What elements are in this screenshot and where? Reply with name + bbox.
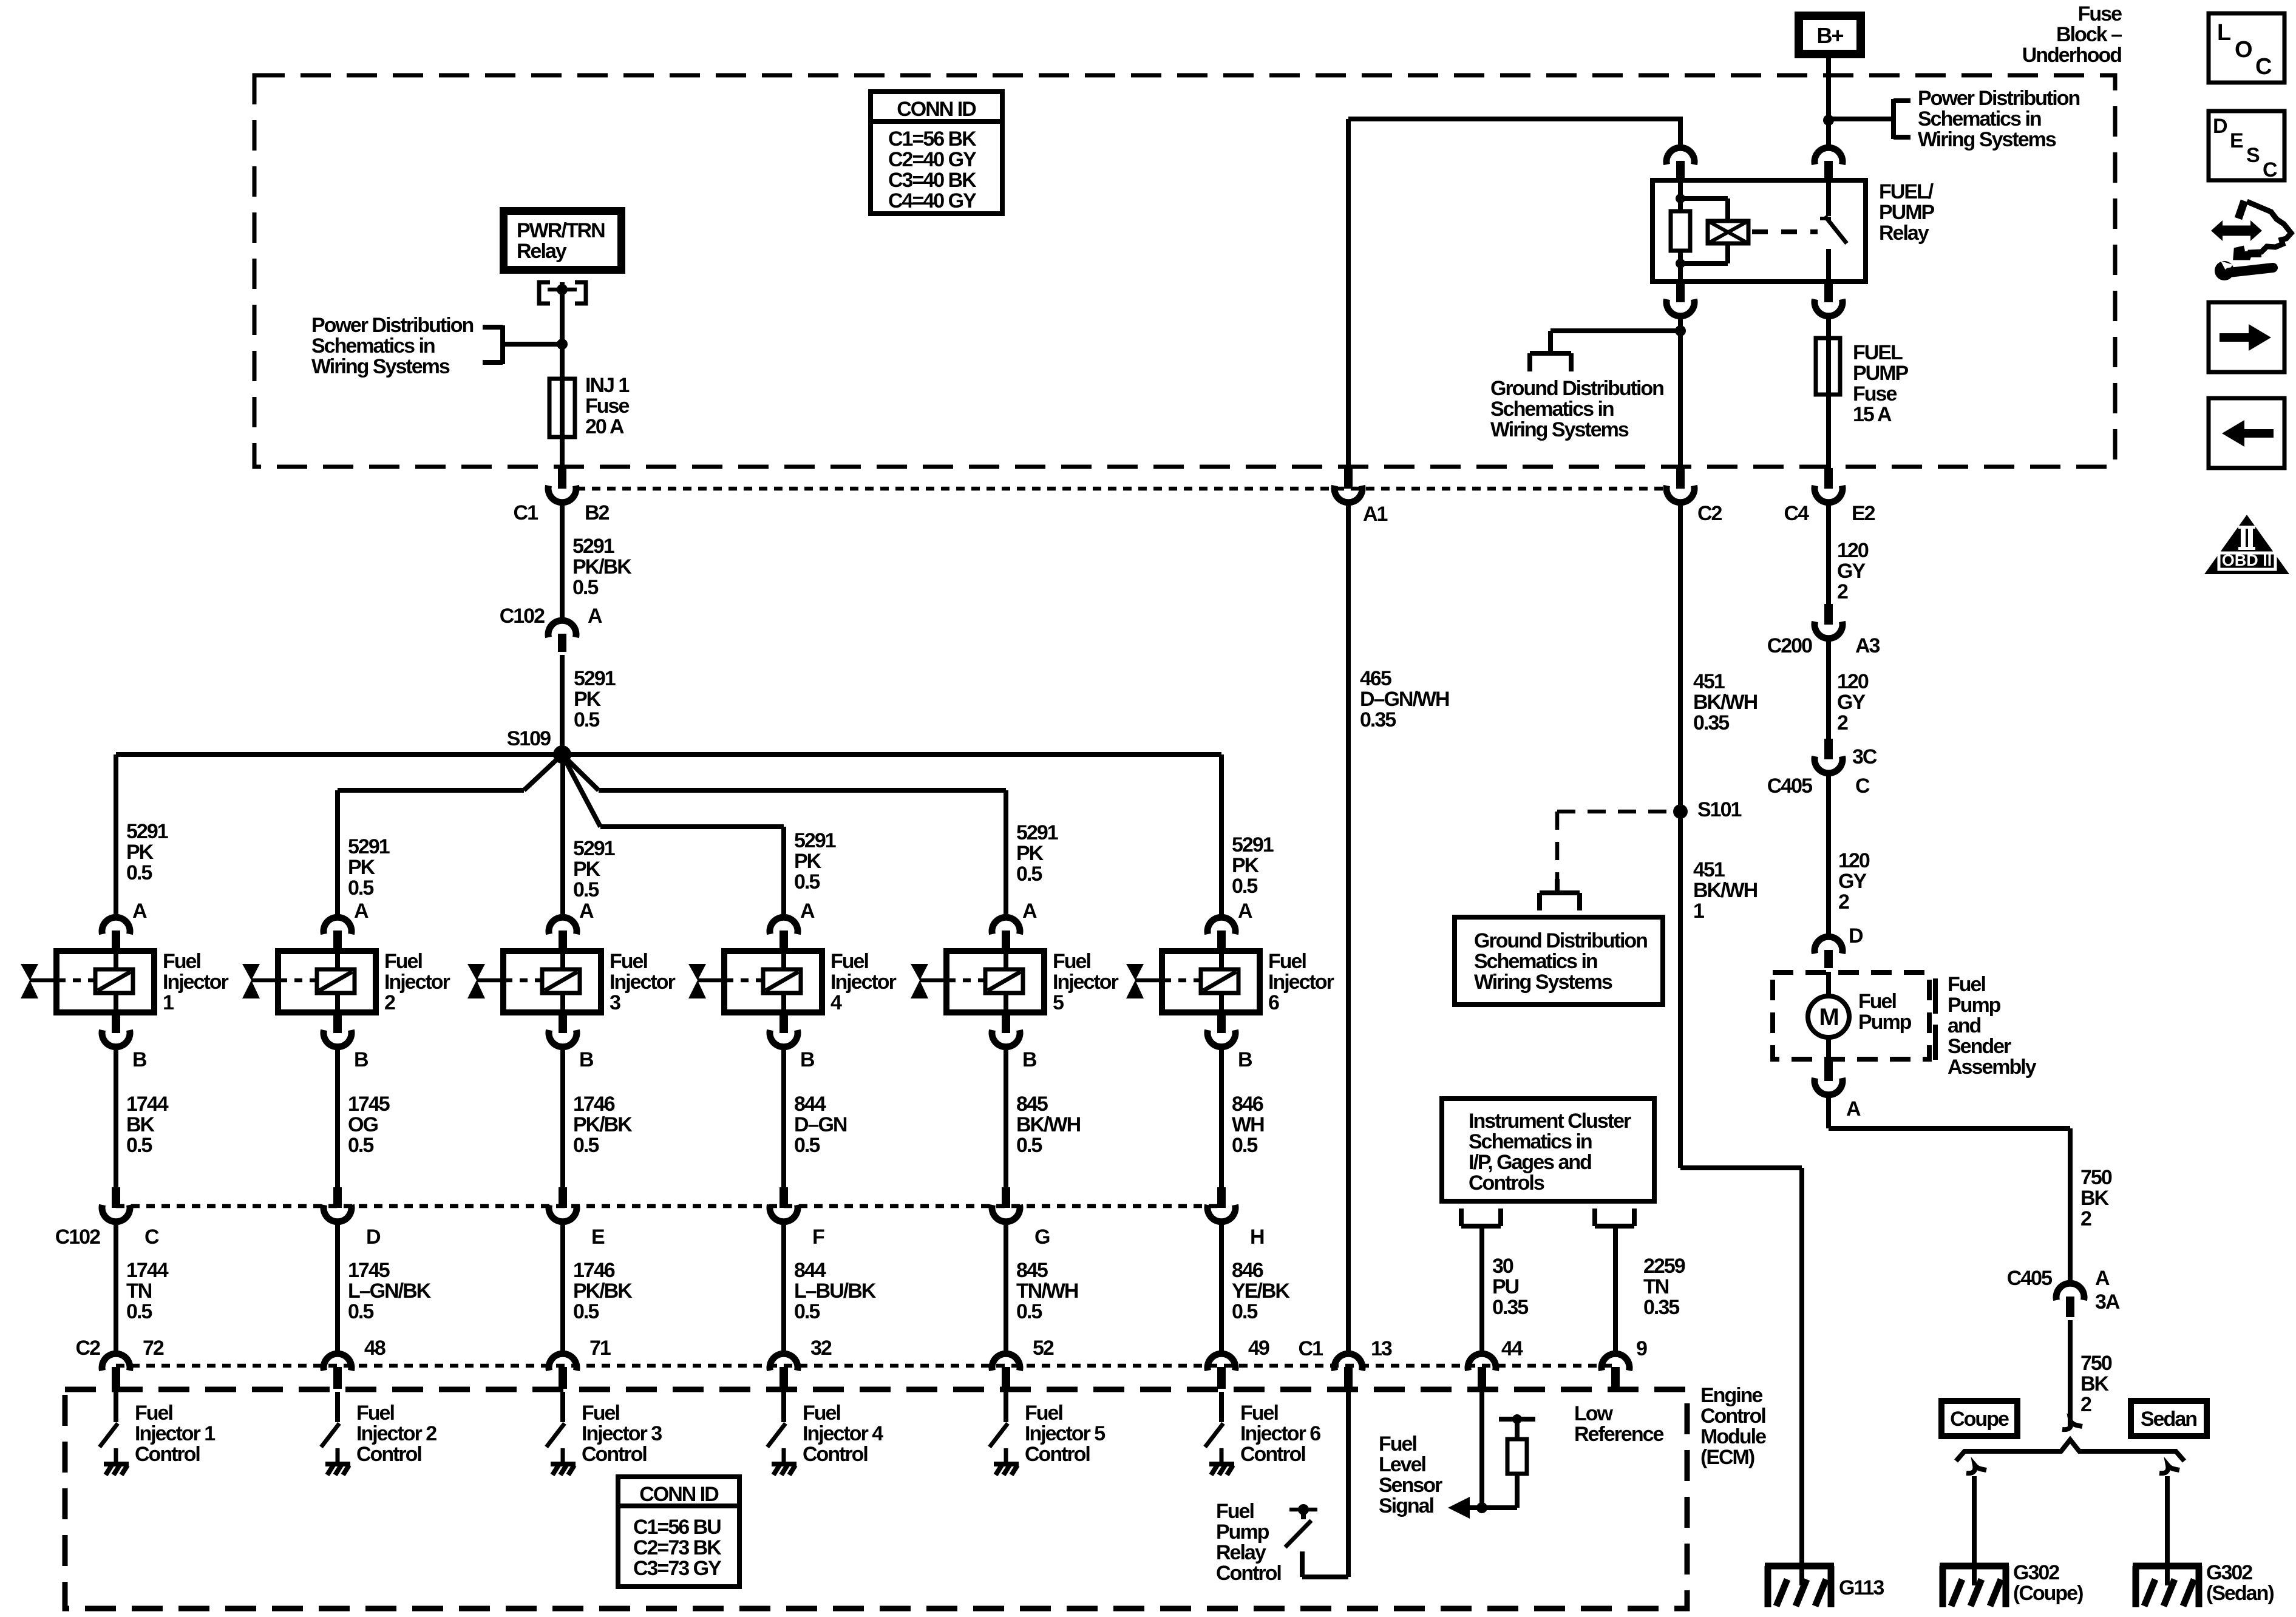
- svg-text:Block –: Block –: [2056, 23, 2122, 46]
- wire injector 2 return upper: [335, 1047, 340, 1187]
- svg-text:B: B: [132, 1048, 147, 1071]
- svg-text:Level: Level: [1379, 1453, 1425, 1476]
- label fuse block - underhood: [2022, 2, 2122, 67]
- svg-text:TN/WH: TN/WH: [1016, 1280, 1078, 1303]
- svg-text:Fuel: Fuel: [1240, 1402, 1278, 1425]
- svg-text:2: 2: [384, 991, 395, 1014]
- label fuel injector 2: [384, 950, 450, 1014]
- svg-text:Fuel: Fuel: [1025, 1402, 1062, 1425]
- label fuel injector 3 control: [582, 1402, 662, 1466]
- svg-text:Underhood: Underhood: [2022, 44, 2122, 67]
- svg-text:S: S: [2246, 144, 2260, 167]
- connector ECM pin 49: [1207, 1354, 1235, 1389]
- svg-text:Schematics in: Schematics in: [311, 334, 435, 358]
- svg-text:B: B: [1022, 1048, 1037, 1071]
- svg-text:0.5: 0.5: [1016, 1134, 1042, 1157]
- fuel pump and sender assembly dashed box: [1773, 972, 1929, 1059]
- svg-text:5291: 5291: [348, 835, 390, 858]
- svg-text:Injector 6: Injector 6: [1240, 1422, 1320, 1445]
- wire 5291 PK/BK 0.5: [560, 503, 565, 620]
- svg-text:M: M: [1819, 1004, 1838, 1031]
- connector C102 pin E: [549, 1187, 577, 1222]
- label ground distribution schematics (upper): [1490, 377, 1663, 441]
- connector injector 5 pin A: [992, 917, 1020, 951]
- connector C2 pin (fuse block bottom): [1666, 468, 1694, 503]
- label pin A (pump): [1846, 1097, 1861, 1120]
- svg-text:BK: BK: [2080, 1187, 2110, 1210]
- wire injector 3 return lower: [560, 1222, 565, 1356]
- connector injector 2 pin A: [324, 917, 352, 951]
- label wire 846 YE/BK 0.5: [1232, 1259, 1290, 1323]
- injector coil - fuel injector 1: [21, 951, 154, 1012]
- label wire 750 BK 2 (upper): [2080, 1166, 2112, 1230]
- svg-text:Control: Control: [582, 1443, 647, 1466]
- svg-text:Control: Control: [803, 1443, 868, 1466]
- connector relay switch terminal (top): [1815, 147, 1843, 179]
- svg-text:E: E: [591, 1225, 605, 1249]
- label wire 844 L–BU/BK 0.5: [794, 1259, 877, 1323]
- svg-text:0.35: 0.35: [1643, 1296, 1679, 1319]
- svg-text:BK: BK: [2080, 1372, 2110, 1395]
- svg-text:C: C: [2263, 158, 2277, 181]
- label wire 2259 TN 0.35: [1643, 1255, 1685, 1319]
- wire to G302 coupe: [1972, 1476, 1977, 1585]
- svg-text:C: C: [2255, 54, 2272, 80]
- icon OBD II triangle: [2204, 515, 2289, 574]
- connector ECM pin 9: [1601, 1354, 1629, 1389]
- label pin B injector 2: [354, 1048, 369, 1071]
- svg-text:TN: TN: [126, 1280, 152, 1303]
- bracket instrument cluster output 9: [1595, 1209, 1634, 1226]
- svg-text:Ground Distribution: Ground Distribution: [1490, 377, 1663, 400]
- label pin A injector 6: [1238, 900, 1252, 923]
- ground G302 (Sedan): [2133, 1566, 2202, 1607]
- callout bracket power distribution (left): [483, 325, 562, 364]
- label wire 1744 TN 0.5: [126, 1259, 169, 1323]
- svg-text:Control: Control: [1216, 1562, 1281, 1585]
- switch fuel pump relay control driver: [1285, 1504, 1317, 1547]
- wire 5291 PK 0.5 feed injector 4: [781, 827, 786, 917]
- label pin C: [144, 1225, 159, 1249]
- svg-text:FUEL: FUEL: [1853, 341, 1903, 364]
- connector ECM pin 13: [1334, 1354, 1362, 1389]
- svg-text:Fuel: Fuel: [803, 1402, 840, 1425]
- svg-text:A: A: [579, 900, 594, 923]
- svg-text:2259: 2259: [1643, 1255, 1685, 1278]
- svg-text:PWR/TRN: PWR/TRN: [517, 219, 605, 242]
- icon service wrench with arrows: [2211, 201, 2291, 280]
- label pin A injector 3: [579, 900, 594, 923]
- label wire 5291 PK 0.5 (main): [574, 667, 616, 731]
- svg-text:D–GN/WH: D–GN/WH: [1360, 688, 1449, 711]
- svg-text:A: A: [800, 900, 815, 923]
- svg-text:71: 71: [589, 1337, 611, 1360]
- svg-text:F: F: [812, 1225, 824, 1249]
- svg-text:PK: PK: [574, 688, 602, 711]
- svg-text:Injector 2: Injector 2: [356, 1422, 436, 1445]
- switch fuel injector 2 control driver: [321, 1392, 350, 1475]
- svg-text:C2: C2: [76, 1337, 101, 1360]
- icon DESC box: [2209, 111, 2284, 181]
- label pin B injector 5: [1022, 1048, 1037, 1071]
- svg-text:PK/BK: PK/BK: [573, 1280, 633, 1303]
- label pin D: [366, 1225, 381, 1249]
- svg-text:Fuel: Fuel: [830, 950, 868, 973]
- svg-text:846: 846: [1232, 1259, 1263, 1282]
- svg-text:C4=40 GY: C4=40 GY: [888, 189, 977, 212]
- svg-text:Coupe: Coupe: [1950, 1408, 2009, 1431]
- svg-text:2: 2: [1838, 890, 1849, 914]
- connector injector 6 pin A: [1207, 917, 1235, 951]
- label fuel injector 2 control: [356, 1402, 436, 1466]
- icon LOC box: [2209, 13, 2284, 83]
- label G113: [1839, 1576, 1884, 1599]
- svg-text:0.5: 0.5: [794, 870, 820, 893]
- svg-text:0.5: 0.5: [348, 1300, 373, 1323]
- connector ECM pin 32: [770, 1354, 798, 1389]
- svg-text:B: B: [354, 1048, 369, 1071]
- svg-text:Injector: Injector: [163, 971, 229, 994]
- label C405 (upper): [1767, 775, 1812, 798]
- svg-text:OG: OG: [348, 1113, 378, 1136]
- svg-text:5291: 5291: [126, 820, 168, 843]
- svg-text:B: B: [800, 1048, 815, 1071]
- svg-text:Ground Distribution: Ground Distribution: [1474, 929, 1647, 952]
- svg-text:GY: GY: [1838, 870, 1867, 893]
- svg-text:Injector 3: Injector 3: [582, 1422, 662, 1445]
- svg-text:451: 451: [1693, 858, 1725, 881]
- svg-text:C1=56 BK: C1=56 BK: [888, 127, 977, 151]
- svg-text:Control: Control: [135, 1443, 200, 1466]
- svg-text:FUEL/: FUEL/: [1879, 180, 1934, 203]
- label fuel injector 4: [830, 950, 897, 1014]
- svg-text:0.35: 0.35: [1360, 708, 1396, 731]
- svg-text:Wiring Systems: Wiring Systems: [311, 355, 450, 378]
- svg-text:PK: PK: [348, 856, 376, 879]
- svg-text:Schematics in: Schematics in: [1469, 1130, 1592, 1153]
- svg-text:Schematics in: Schematics in: [1918, 107, 2041, 131]
- svg-text:C2: C2: [1697, 502, 1722, 525]
- connector relay switch terminal (bottom): [1815, 282, 1843, 316]
- label S109: [507, 727, 551, 750]
- svg-text:D: D: [1849, 924, 1863, 947]
- bracket instrument cluster output 44: [1461, 1209, 1501, 1226]
- label wire 5291 PK 0.5 injector 1: [126, 820, 168, 884]
- connector ECM pin 52: [992, 1354, 1020, 1389]
- svg-text:BK/WH: BK/WH: [1693, 879, 1758, 902]
- svg-text:PU: PU: [1492, 1275, 1519, 1298]
- battery feed B+ terminal box: [1799, 16, 1861, 54]
- svg-text:Injector: Injector: [1053, 971, 1119, 994]
- svg-text:C1: C1: [1299, 1337, 1323, 1360]
- svg-text:Low: Low: [1574, 1402, 1614, 1425]
- svg-text:Injector 1: Injector 1: [135, 1422, 215, 1445]
- label wire 5291 PK/BK 0.5: [572, 535, 632, 599]
- svg-text:Wiring Systems: Wiring Systems: [1474, 971, 1612, 994]
- connector C102 pin H: [1207, 1187, 1235, 1222]
- label C102 (row): [55, 1225, 100, 1249]
- node power distribution junction (left): [557, 339, 568, 350]
- svg-text:C: C: [1855, 775, 1870, 798]
- label pin A injector 4: [800, 900, 815, 923]
- connector injector 4 pin A: [770, 917, 798, 951]
- svg-text:BK/WH: BK/WH: [1693, 691, 1758, 714]
- switch fuel injector 6 control driver: [1205, 1392, 1234, 1475]
- label fuel injector 6 control: [1240, 1402, 1320, 1466]
- label pin B injector 4: [800, 1048, 815, 1071]
- svg-text:0.5: 0.5: [574, 708, 599, 731]
- connector row C1/C2 dotted line (top): [577, 487, 1663, 491]
- connector injector 6 pin B: [1207, 1012, 1235, 1047]
- svg-text:9: 9: [1636, 1337, 1647, 1360]
- wire injector 1 return upper: [114, 1047, 118, 1187]
- svg-text:WH: WH: [1232, 1113, 1264, 1136]
- svg-text:INJ 1: INJ 1: [585, 374, 629, 397]
- splice S109: [553, 745, 571, 764]
- connector A1: [1334, 468, 1362, 503]
- svg-text:PUMP: PUMP: [1879, 201, 1935, 224]
- svg-text:B+: B+: [1816, 23, 1843, 48]
- connector C1 B2: [548, 468, 576, 503]
- label C102 (top): [500, 605, 545, 628]
- brace coupe/sedan split: [1956, 1440, 2184, 1461]
- svg-text:Fuel: Fuel: [1216, 1500, 1254, 1523]
- svg-text:Reference: Reference: [1574, 1423, 1664, 1446]
- label wire 30 PU 0.35: [1492, 1255, 1528, 1319]
- wire 120 GY 2 E2 to C200: [1826, 503, 1831, 604]
- connector fuel pump pin A: [1815, 1060, 1843, 1095]
- label wire 5291 PK 0.5 injector 2: [348, 835, 390, 900]
- svg-text:1: 1: [163, 991, 174, 1014]
- svg-text:A3: A3: [1855, 634, 1880, 657]
- svg-text:Signal: Signal: [1379, 1494, 1434, 1517]
- label wire 5291 PK 0.5 injector 3: [573, 837, 615, 901]
- wire B+ to fuel pump relay: [1826, 54, 1831, 150]
- svg-text:0.5: 0.5: [573, 1134, 599, 1157]
- svg-text:E: E: [2230, 129, 2243, 152]
- svg-text:844: 844: [794, 1259, 826, 1282]
- wire injector 6 return lower: [1219, 1222, 1224, 1356]
- svg-text:0.5: 0.5: [1232, 1300, 1257, 1323]
- svg-text:Fuel: Fuel: [1379, 1432, 1416, 1456]
- svg-text:C2=73 BK: C2=73 BK: [633, 1536, 722, 1559]
- svg-text:844: 844: [794, 1093, 826, 1116]
- label fuel injector 1 control: [135, 1402, 215, 1466]
- label wire 5291 PK 0.5 injector 5: [1016, 821, 1058, 886]
- svg-text:1745: 1745: [348, 1093, 390, 1116]
- connector injector 2 pin B: [324, 1012, 352, 1047]
- svg-text:0.5: 0.5: [126, 1300, 152, 1323]
- variant box Coupe: [1941, 1401, 2017, 1436]
- svg-text:Power Distribution: Power Distribution: [311, 314, 473, 337]
- connector relay coil terminal (top): [1666, 147, 1694, 179]
- svg-text:2: 2: [1837, 711, 1848, 734]
- label fuel injector 6: [1268, 950, 1334, 1014]
- label wire 1744 BK 0.5: [126, 1093, 169, 1157]
- wire 451 BK/WH relay to C2: [1678, 316, 1683, 468]
- label pin 32: [810, 1337, 832, 1360]
- svg-text:5: 5: [1053, 991, 1064, 1014]
- svg-text:0.35: 0.35: [1492, 1296, 1528, 1319]
- label pin 44: [1501, 1337, 1523, 1360]
- svg-text:G113: G113: [1839, 1576, 1884, 1599]
- label power distribution schematics (left): [311, 314, 473, 378]
- svg-text:Fuel: Fuel: [582, 1402, 619, 1425]
- svg-text:Fuel: Fuel: [610, 950, 647, 973]
- svg-text:30: 30: [1492, 1255, 1513, 1278]
- node coil-ground junction: [1675, 325, 1686, 336]
- switch fuel injector 4 control driver: [767, 1392, 796, 1475]
- svg-text:845: 845: [1016, 1093, 1048, 1116]
- svg-text:Fuel: Fuel: [1053, 950, 1090, 973]
- label engine control module ECM: [1700, 1384, 1766, 1469]
- svg-text:5291: 5291: [1232, 833, 1274, 856]
- svg-text:Fuel: Fuel: [356, 1402, 394, 1425]
- switch fuel injector 1 control driver: [100, 1392, 129, 1475]
- svg-text:49: 49: [1248, 1337, 1269, 1360]
- wire injector 2 return lower: [335, 1222, 340, 1356]
- svg-text:1746: 1746: [573, 1093, 615, 1116]
- svg-text:PK: PK: [573, 858, 601, 881]
- label pin 3A: [2095, 1290, 2120, 1314]
- label wire 845 TN/WH 0.5: [1016, 1259, 1078, 1323]
- fuse INJ 1 20A: [549, 379, 575, 437]
- wire fuse block to A1: [1346, 119, 1351, 468]
- label C1 (ECM row): [1293, 1335, 1328, 1362]
- label pin 48: [364, 1337, 385, 1360]
- label C2 (row): [76, 1337, 101, 1360]
- svg-text:Sedan: Sedan: [2141, 1408, 2196, 1431]
- label pin B injector 3: [579, 1048, 594, 1071]
- svg-text:A1: A1: [1363, 503, 1388, 526]
- svg-text:Pump: Pump: [1216, 1520, 1269, 1544]
- svg-text:A: A: [1022, 900, 1037, 923]
- label pin E: [591, 1225, 605, 1249]
- svg-text:2: 2: [2080, 1207, 2091, 1230]
- label pin B2: [585, 501, 610, 524]
- svg-text:CONN ID: CONN ID: [897, 98, 976, 121]
- wire 5291 PK 0.5 feed injector 6: [1219, 754, 1224, 917]
- svg-text:0.5: 0.5: [126, 1134, 152, 1157]
- label wire 465 D-GN/WH 0.35: [1360, 667, 1449, 731]
- wire 2259 TN 0.35: [1613, 1226, 1618, 1356]
- svg-text:OBD II: OBD II: [2222, 551, 2272, 569]
- switch fuel injector 3 control driver: [546, 1392, 576, 1475]
- svg-text:0.5: 0.5: [794, 1134, 820, 1157]
- wire injector 3 return upper: [560, 1047, 565, 1187]
- svg-text:0.5: 0.5: [794, 1300, 820, 1323]
- connector injector 3 pin A: [549, 917, 577, 951]
- svg-text:Fuse: Fuse: [585, 395, 629, 418]
- label wire 1745 L–GN/BK 0.5: [348, 1259, 432, 1323]
- svg-text:0.5: 0.5: [573, 878, 599, 901]
- wire 5291 PK 0.5 feed injector 2: [335, 790, 340, 917]
- label fuel level sensor signal: [1379, 1432, 1442, 1517]
- wire injector 4 return upper: [781, 1047, 786, 1187]
- fuse FUEL PUMP 15A: [1816, 338, 1840, 395]
- label pin B injector 1: [132, 1048, 147, 1071]
- svg-text:PUMP: PUMP: [1853, 362, 1909, 385]
- svg-text:C2=40 GY: C2=40 GY: [888, 148, 977, 171]
- connector C102 pin G: [992, 1187, 1020, 1222]
- svg-text:Relay: Relay: [1216, 1541, 1266, 1564]
- svg-text:750: 750: [2080, 1352, 2112, 1375]
- svg-text:A: A: [1846, 1097, 1861, 1120]
- svg-text:Fuel: Fuel: [1948, 973, 1985, 996]
- svg-text:A: A: [354, 900, 369, 923]
- svg-text:5291: 5291: [794, 829, 836, 852]
- connector injector 5 pin B: [992, 1012, 1020, 1047]
- resistor fuel level sensor: [1448, 1392, 1535, 1519]
- svg-text:0.5: 0.5: [573, 1300, 599, 1323]
- label wire 5291 PK 0.5 injector 6: [1232, 833, 1274, 898]
- callout pitchfork ground distribution (upper): [1530, 331, 1680, 371]
- variant box Sedan: [2131, 1401, 2207, 1436]
- svg-text:Control: Control: [1700, 1405, 1765, 1428]
- svg-text:120: 120: [1838, 849, 1870, 872]
- svg-text:C405: C405: [1767, 775, 1812, 798]
- svg-text:and: and: [1948, 1014, 1981, 1037]
- label C405 (lower): [2007, 1267, 2052, 1290]
- label fuel pump relay control: [1216, 1500, 1281, 1585]
- svg-text:Controls: Controls: [1469, 1171, 1544, 1195]
- svg-text:845: 845: [1016, 1259, 1048, 1282]
- svg-text:Control: Control: [1025, 1443, 1090, 1466]
- wire injector 1 return lower: [114, 1222, 118, 1356]
- svg-text:C1: C1: [514, 501, 538, 524]
- label pin E2: [1852, 502, 1875, 525]
- svg-text:5291: 5291: [572, 535, 614, 558]
- svg-text:0.5: 0.5: [348, 876, 373, 900]
- label pin A (C405): [2095, 1267, 2110, 1290]
- svg-text:Power Distribution: Power Distribution: [1918, 87, 2079, 110]
- svg-text:PK: PK: [126, 841, 154, 864]
- svg-text:0.35: 0.35: [1693, 711, 1729, 734]
- svg-text:44: 44: [1501, 1337, 1523, 1360]
- svg-text:Injector: Injector: [610, 971, 676, 994]
- label pin 9: [1636, 1337, 1647, 1360]
- injector coil - fuel injector 5: [911, 951, 1044, 1012]
- svg-text:A: A: [132, 900, 147, 923]
- svg-text:C1=56 BU: C1=56 BU: [633, 1516, 721, 1539]
- label wire 1745 OG 0.5: [348, 1093, 390, 1157]
- label pin A injector 2: [354, 900, 369, 923]
- label wire 451 BK/WH 1: [1693, 858, 1758, 923]
- label wire 844 D–GN 0.5: [794, 1093, 847, 1157]
- svg-text:2: 2: [1837, 580, 1848, 603]
- svg-text:Pump: Pump: [1858, 1011, 1912, 1034]
- label fuel pump: [1858, 990, 1912, 1034]
- label fuel injector 4 control: [803, 1402, 883, 1466]
- svg-text:2: 2: [2080, 1393, 2091, 1416]
- connector C4-E2 pin (fuse block bottom): [1815, 468, 1843, 503]
- svg-text:BK/WH: BK/WH: [1016, 1113, 1081, 1136]
- label pin H: [1250, 1225, 1264, 1249]
- injector coil - fuel injector 4: [688, 951, 822, 1012]
- svg-text:0.5: 0.5: [1016, 863, 1042, 886]
- label pin C: [1855, 775, 1870, 798]
- label G302 (Coupe): [2013, 1561, 2083, 1605]
- fuse block terminal symbol below PWR/TRN relay: [539, 282, 586, 303]
- svg-text:Wiring Systems: Wiring Systems: [1918, 128, 2056, 151]
- ground G113: [1765, 1566, 1834, 1607]
- label G302 (Sedan): [2206, 1561, 2274, 1605]
- wire 120 GY 2 C200 to C405: [1826, 639, 1831, 739]
- svg-text:C102: C102: [55, 1225, 100, 1249]
- motor M fuel pump: [1808, 972, 1849, 1060]
- svg-text:L–GN/BK: L–GN/BK: [348, 1280, 432, 1303]
- wire 120 GY 2 C405 to fuel pump: [1826, 773, 1831, 939]
